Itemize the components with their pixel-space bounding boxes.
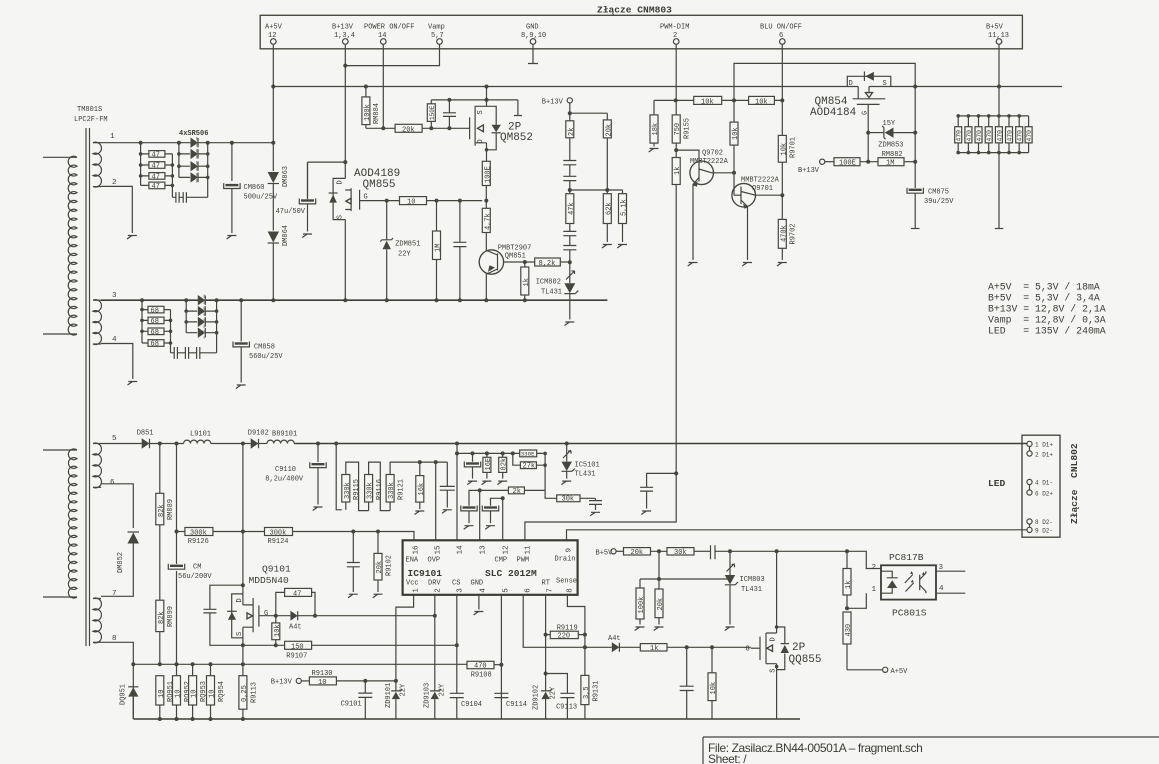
svg-text:R9701: R9701: [790, 137, 798, 158]
capacitor CM858 560u/25V: [233, 300, 283, 382]
resistor 150 R9107: [285, 641, 312, 660]
node B+13V terminal bottom: [271, 678, 310, 686]
zener ZDM853 15Y: [866, 120, 917, 150]
svg-text:12: 12: [503, 545, 511, 555]
svg-text:D: D: [477, 139, 485, 143]
wire pin6 to feedback node: [523, 595, 585, 648]
wire PMBT emitter to rail: [485, 274, 487, 300]
connector CNL802 pin 2 D1+: [1027, 447, 1054, 459]
diode bus pin3 left: [186, 300, 197, 333]
svg-text:B+13V: B+13V: [542, 99, 564, 107]
svg-text:B+13V: B+13V: [798, 167, 820, 175]
svg-text:CM858: CM858: [254, 344, 275, 352]
wire 10k row y=100.4: [654, 100, 782, 115]
pin BLU ON/OFF 6: [760, 24, 802, 45]
svg-text:470: 470: [976, 130, 983, 142]
diode A4t gate: [289, 611, 302, 632]
svg-text:TM801S: TM801S: [77, 106, 102, 114]
svg-text:8 D2-: 8 D2-: [1035, 519, 1053, 526]
resistor 20k fb2: [655, 579, 665, 625]
pin 5: [503, 588, 511, 593]
svg-text:1: 1: [110, 133, 115, 141]
capacitor C9114: [494, 693, 527, 709]
resistor 20k mid: [603, 120, 613, 190]
svg-text:TL431: TL431: [575, 471, 596, 479]
resistor 10k QQ855 gate: [708, 647, 718, 719]
capacitor pair mid upper: [563, 161, 576, 191]
svg-text:430: 430: [845, 624, 853, 637]
diode bus SR506 left: [179, 143, 190, 178]
node B+5V terminal: [596, 549, 624, 558]
ground pin4: [128, 382, 138, 386]
svg-text:2k: 2k: [513, 488, 521, 496]
resistor 10k (row 2): [749, 96, 775, 106]
capacitor snubber pin1: [172, 192, 207, 203]
wire pin2 to ground: [101, 186, 132, 233]
svg-text:3,5: 3,5: [583, 686, 591, 699]
diode pin3 (4): [198, 328, 206, 338]
svg-text:9: 9: [566, 548, 574, 553]
mosfet Q9101 MDD5N40: [227, 564, 291, 646]
svg-text:A+5V: A+5V: [265, 24, 283, 32]
wire B+5V vertical: [998, 44, 1000, 228]
svg-text:10: 10: [158, 690, 166, 698]
ground CM858: [236, 385, 246, 389]
resistor 82k pin14: [499, 453, 509, 478]
svg-text:1k: 1k: [523, 278, 531, 286]
ground 62k: [602, 245, 612, 249]
transformer secondary 5-6: [93, 443, 101, 488]
svg-text:CM875: CM875: [928, 189, 949, 197]
ground PWM cap: [641, 511, 651, 515]
svg-text:470: 470: [1017, 130, 1024, 142]
svg-text:DM852: DM852: [117, 552, 125, 573]
ground cap 30k: [590, 512, 600, 516]
wire R9130 to Vcc node: [336, 680, 396, 682]
resistor 47 (4): [149, 182, 165, 191]
ground 16k: [415, 511, 425, 515]
capacitor QM855 gate: [453, 201, 466, 301]
resistor 62k: [603, 190, 613, 242]
shunt ICM802 TL431: [536, 262, 579, 319]
wire D9102 to B89101: [259, 443, 268, 445]
mosfet QM855 AOD4189: [329, 168, 401, 220]
pin 11 PWM: [517, 545, 533, 565]
svg-text:22Y: 22Y: [550, 686, 558, 699]
svg-text:2 D1+: 2 D1+: [1035, 452, 1053, 459]
pin 9 Drain: [555, 548, 576, 564]
svg-text:R9115: R9115: [353, 479, 361, 500]
resistor 1k PWM: [672, 158, 682, 185]
diode pin3 (3): [198, 317, 206, 327]
svg-text:R9702: R9702: [790, 223, 798, 244]
svg-text:Drain: Drain: [555, 556, 576, 564]
wire sense bus y=664.3: [133, 663, 467, 665]
dashed package line pin3 diodes: [203, 295, 205, 339]
svg-text:47: 47: [152, 174, 160, 182]
diode DM864: [268, 225, 290, 246]
svg-text:10: 10: [407, 199, 415, 207]
svg-text:ZDM853: ZDM853: [878, 142, 903, 150]
diode D9102: [248, 430, 269, 449]
svg-text:CMP: CMP: [495, 557, 508, 565]
transistor Q9702 MMBT2222A: [676, 150, 734, 261]
svg-text:47: 47: [293, 590, 301, 598]
svg-text:1k: 1k: [674, 167, 682, 175]
svg-text:560u/25V: 560u/25V: [249, 353, 283, 361]
wire BLU ON/OFF vertical: [781, 44, 783, 260]
svg-text:56u/200V: 56u/200V: [178, 573, 212, 581]
svg-text:10k: 10k: [780, 143, 788, 156]
pin Vamp 5,7: [428, 24, 445, 45]
svg-text:11: 11: [525, 545, 533, 555]
wire PWM dim node: [525, 444, 676, 541]
svg-text:Złącze CNL802: Złącze CNL802: [1069, 443, 1080, 524]
svg-text:PWM: PWM: [517, 557, 530, 565]
capacitor C9113: [546, 674, 578, 720]
resistor 47 (1): [149, 151, 165, 160]
svg-text:PC801S: PC801S: [892, 608, 927, 619]
resistor 10 RQ954: [207, 664, 226, 719]
text output ratings: [988, 282, 1106, 337]
svg-text:470: 470: [1026, 130, 1033, 142]
terminal tick B+5V: [995, 228, 1004, 230]
svg-text:20k: 20k: [376, 561, 384, 574]
svg-text:82k: 82k: [501, 458, 509, 471]
ground ICM802: [565, 322, 575, 326]
resistor 30k: [557, 495, 580, 504]
wire DM864 to rail: [272, 243, 274, 300]
diode D851: [137, 430, 154, 449]
resistor bank 470 x8 bottom bus: [958, 152, 1028, 154]
mosfet QM854 AOD4184: [810, 72, 891, 133]
capacitor C9104: [450, 645, 482, 719]
svg-text:470: 470: [474, 663, 487, 671]
resistor 1M: [433, 201, 443, 301]
transformer core: [86, 128, 90, 646]
svg-text:4,7k: 4,7k: [484, 213, 492, 230]
svg-text:ZD9101: ZD9101: [385, 683, 393, 708]
svg-text:1M: 1M: [435, 244, 443, 252]
pin B+5V 11,13: [986, 24, 1009, 45]
ground OVP cap: [442, 510, 452, 514]
svg-text:DM864: DM864: [282, 225, 290, 246]
pin 13: [480, 545, 488, 555]
svg-text:ENA: ENA: [406, 557, 419, 565]
svg-text:CM: CM: [193, 564, 201, 572]
svg-text:470k: 470k: [780, 225, 788, 242]
wire CM column from pin5 rail: [176, 444, 178, 665]
svg-text:5: 5: [503, 588, 511, 593]
svg-text:62k: 62k: [605, 202, 613, 215]
svg-text:470: 470: [1007, 130, 1014, 142]
resistor 300k R9124: [265, 528, 293, 547]
zener ZDM851 22Y: [380, 201, 420, 301]
wire 30k row y=498.3: [545, 490, 595, 498]
wire pin7: [101, 544, 133, 597]
ground 20k fb2: [654, 627, 664, 631]
svg-text:82k: 82k: [158, 611, 166, 624]
wire PWM-DIM vertical: [675, 44, 677, 443]
transformer secondary 3-4: [93, 300, 101, 345]
svg-text:ICM802: ICM802: [536, 279, 561, 287]
svg-text:100E: 100E: [484, 166, 492, 183]
pin 3 CS: [452, 580, 465, 593]
diode A4t feedback: [585, 635, 640, 652]
node junctions on pin1 wire: [139, 141, 276, 145]
svg-text:A+5V: A+5V: [891, 668, 909, 676]
zener ZD9103 22Y: [424, 616, 447, 719]
ground 82k: [497, 481, 507, 485]
svg-text:150: 150: [291, 643, 304, 651]
wire pin4 to ground: [101, 344, 133, 380]
node A+5V terminal: [847, 667, 908, 676]
resistor RM884 100k: [362, 87, 381, 129]
svg-text:LED = 135V / 240mA: LED = 135V / 240mA: [988, 326, 1106, 337]
svg-text:Złącze CNM803: Złącze CNM803: [597, 5, 672, 16]
svg-text:Sense: Sense: [556, 578, 577, 586]
svg-text:B+13V: B+13V: [332, 24, 354, 32]
wire pin12 CMP: [502, 498, 504, 540]
svg-text:ZD9102: ZD9102: [533, 685, 541, 710]
ground ICM803: [725, 627, 735, 631]
wire B+5V secondary rail y=300: [101, 299, 607, 301]
capacitor C9110 8,2u/400V: [265, 444, 326, 505]
wire vertical x=915: [914, 87, 916, 189]
resistor 150E: [427, 100, 436, 128]
node B+13V terminal right: [798, 159, 834, 175]
ground R9702: [777, 263, 787, 267]
capacitor C9101: [341, 681, 373, 719]
svg-text:2k: 2k: [568, 128, 576, 136]
capacitor Q9101 snubber: [203, 585, 243, 645]
svg-text:1: 1: [872, 586, 877, 594]
wire gate node Q9101: [259, 615, 291, 617]
wire 330k chain input: [336, 444, 342, 510]
wire Vcc from pin1: [396, 595, 414, 681]
terminal tick x=915: [911, 228, 920, 230]
svg-text:R9113: R9113: [250, 682, 258, 703]
pin 2 DRV: [428, 580, 443, 593]
svg-text:20k: 20k: [402, 126, 415, 134]
ground pin2: [127, 236, 137, 240]
svg-text:18k: 18k: [652, 123, 660, 136]
capacitor PWM filter: [640, 473, 676, 508]
svg-text:10k: 10k: [274, 624, 282, 637]
svg-text:CM860: CM860: [244, 184, 265, 192]
diode bus pin3 right: [205, 300, 216, 353]
svg-text:4xSR506: 4xSR506: [179, 130, 208, 138]
svg-text:C9113: C9113: [556, 704, 577, 712]
wire B+13V vertical: [344, 44, 346, 178]
svg-text:1k: 1k: [845, 581, 853, 589]
resistor 47 (2): [149, 162, 165, 171]
resistor 30k fb: [667, 548, 710, 557]
svg-text:10k: 10k: [710, 682, 718, 695]
resistor R9119 220: [546, 625, 587, 641]
resistors 470 bank: [955, 116, 1033, 153]
svg-text:4 D1-: 4 D1-: [1035, 480, 1053, 487]
pin 6: [525, 588, 533, 593]
svg-text:15Y: 15Y: [883, 120, 896, 128]
pin A+5V 12: [265, 24, 283, 45]
svg-text:L9101: L9101: [190, 431, 211, 439]
svg-text:R9155: R9155: [684, 118, 692, 139]
svg-text:100E: 100E: [839, 160, 856, 168]
wire pin14 subrail y=453.4: [456, 444, 458, 541]
svg-text:MDD5N40: MDD5N40: [249, 575, 290, 586]
svg-text:DQ951: DQ951: [120, 684, 128, 705]
svg-text:8: 8: [567, 588, 575, 593]
svg-text:ICM803: ICM803: [740, 576, 765, 584]
pin 1 Vcc: [406, 580, 420, 593]
transformer primary winding lower: [43, 449, 77, 598]
resistor 47k: [566, 190, 576, 231]
svg-text:6: 6: [525, 588, 533, 593]
diode SR506 (2): [191, 149, 199, 159]
svg-text:68: 68: [151, 341, 159, 349]
svg-text:PC817B: PC817B: [889, 552, 924, 563]
svg-text:47: 47: [152, 163, 160, 171]
svg-text:R9126: R9126: [188, 538, 209, 546]
resistor 5,1k: [619, 190, 629, 242]
zener ZD9101 22Y: [385, 681, 408, 719]
shunt ICM803 TL431: [725, 551, 765, 624]
transistor Q9701 MMBT2222A: [732, 177, 782, 261]
wire source to R9113: [242, 645, 244, 675]
wire R9107 to CS: [312, 644, 457, 646]
pin GND 8,9,10: [521, 24, 546, 45]
zener ZD9102 22Y: [533, 635, 558, 719]
pin 7 RT: [542, 580, 555, 593]
svg-text:68: 68: [151, 307, 159, 315]
svg-text:POWER ON/OFF: POWER ON/OFF: [364, 24, 414, 32]
dashed package line SR506: [196, 137, 198, 183]
capacitor OVP: [440, 462, 455, 507]
connector CNM803 bar: [260, 15, 1022, 49]
diode SR506 (3): [191, 161, 199, 171]
svg-text:DM863: DM863: [282, 166, 290, 187]
svg-text:LED: LED: [988, 478, 1006, 489]
resistor 82k RM889: [156, 493, 175, 525]
svg-text:3: 3: [112, 292, 117, 300]
svg-text:A4t: A4t: [289, 624, 302, 632]
wire POWER ON/OFF vertical: [382, 44, 384, 128]
ground 16E: [482, 481, 492, 485]
svg-text:2P: 2P: [792, 642, 806, 654]
svg-text:10k: 10k: [732, 127, 740, 140]
svg-text:B89101: B89101: [272, 431, 297, 439]
svg-text:27k: 27k: [523, 463, 536, 471]
svg-text:AOD4184: AOD4184: [810, 107, 857, 119]
resistor bank 470 x8 top bus: [958, 115, 1028, 117]
svg-text:G: G: [862, 111, 870, 115]
wire pin7 RT: [545, 595, 547, 635]
resistor 430: [843, 612, 853, 670]
resistor 470 R9108: [467, 661, 502, 679]
resistor 68 (3): [148, 328, 164, 337]
wire pin5: [500, 595, 502, 719]
svg-text:PWM-DIM: PWM-DIM: [660, 24, 689, 32]
svg-text:6: 6: [110, 479, 115, 487]
svg-text:S: S: [770, 669, 778, 673]
svg-text:10k: 10k: [701, 98, 714, 106]
svg-text:4: 4: [480, 588, 488, 593]
wire QM855 source down to rail: [344, 220, 346, 301]
svg-text:470: 470: [986, 130, 993, 142]
svg-text:10: 10: [318, 679, 326, 687]
svg-text:220: 220: [558, 633, 571, 641]
svg-text:CS: CS: [452, 580, 460, 588]
capacitor series fb: [711, 545, 779, 559]
mosfet QQ855 2P: [746, 551, 822, 719]
wire R9124 to ENA: [293, 532, 415, 541]
diode SR506 (4): [191, 172, 199, 182]
capacitor QM852 gate: [443, 100, 456, 128]
svg-text:QQ855: QQ855: [789, 654, 822, 666]
svg-text:100k: 100k: [638, 597, 646, 614]
connector CNL802 pin 6 D2+: [1027, 485, 1054, 498]
resistor 47 (3): [149, 173, 165, 182]
resistor 16E: [483, 453, 493, 478]
connector CNL802 pin 1 D1+: [1027, 441, 1054, 448]
svg-text:2: 2: [872, 564, 877, 572]
pin 16 ENA: [406, 545, 421, 565]
svg-text:B+13V = 12,8V / 2,1A: B+13V = 12,8V / 2,1A: [988, 304, 1106, 315]
wire bottom rail y=719: [133, 718, 800, 720]
svg-text:TL431: TL431: [741, 586, 762, 594]
svg-text:Q9101: Q9101: [262, 564, 291, 575]
pin B+13V 1,3,4: [332, 24, 355, 45]
wire between DM863 DM864: [272, 184, 274, 231]
resistor 3,5 R9131: [581, 675, 600, 719]
diode pin3 (2): [198, 306, 206, 316]
transformer primary winding upper: [43, 156, 77, 335]
resistor 470k R9702: [778, 219, 797, 248]
svg-text:RM899: RM899: [167, 606, 175, 627]
resistor 82k RM899: [156, 600, 175, 631]
ground R9102: [373, 594, 383, 598]
wire L9101 to D9102: [211, 443, 251, 445]
svg-text:D: D: [770, 637, 778, 641]
svg-text:10: 10: [191, 690, 199, 698]
resistor 27k: [513, 452, 547, 491]
ground 100k: [635, 627, 645, 631]
resistor 330E: [513, 450, 545, 458]
connector CNL802 pin 4 D1-: [1027, 479, 1053, 486]
svg-text:330k: 330k: [344, 482, 352, 499]
wire pin1 output: [101, 142, 273, 144]
wire drain column x=242.9: [242, 444, 244, 586]
capacitor CM 56u/200V: [168, 564, 212, 582]
svg-text:R9102: R9102: [385, 555, 393, 576]
svg-text:30k: 30k: [562, 496, 575, 504]
transformer TM801S label: [74, 106, 108, 124]
svg-text:0,25: 0,25: [241, 685, 249, 702]
svg-text:330E: 330E: [521, 451, 535, 458]
svg-text:3: 3: [457, 588, 465, 593]
diode DM852: [117, 532, 139, 573]
svg-text:16E: 16E: [485, 458, 493, 471]
node B+13V terminal mid: [542, 98, 608, 120]
wire 100k/20k row: [640, 551, 728, 579]
resistor 47 gate: [276, 588, 315, 615]
wire QM852 gate subrail y=99.9: [431, 100, 522, 116]
svg-text:QM855: QM855: [363, 179, 396, 191]
ground CM860: [227, 236, 237, 240]
resistor 68 (1): [148, 306, 164, 315]
svg-text:16k: 16k: [418, 483, 426, 496]
